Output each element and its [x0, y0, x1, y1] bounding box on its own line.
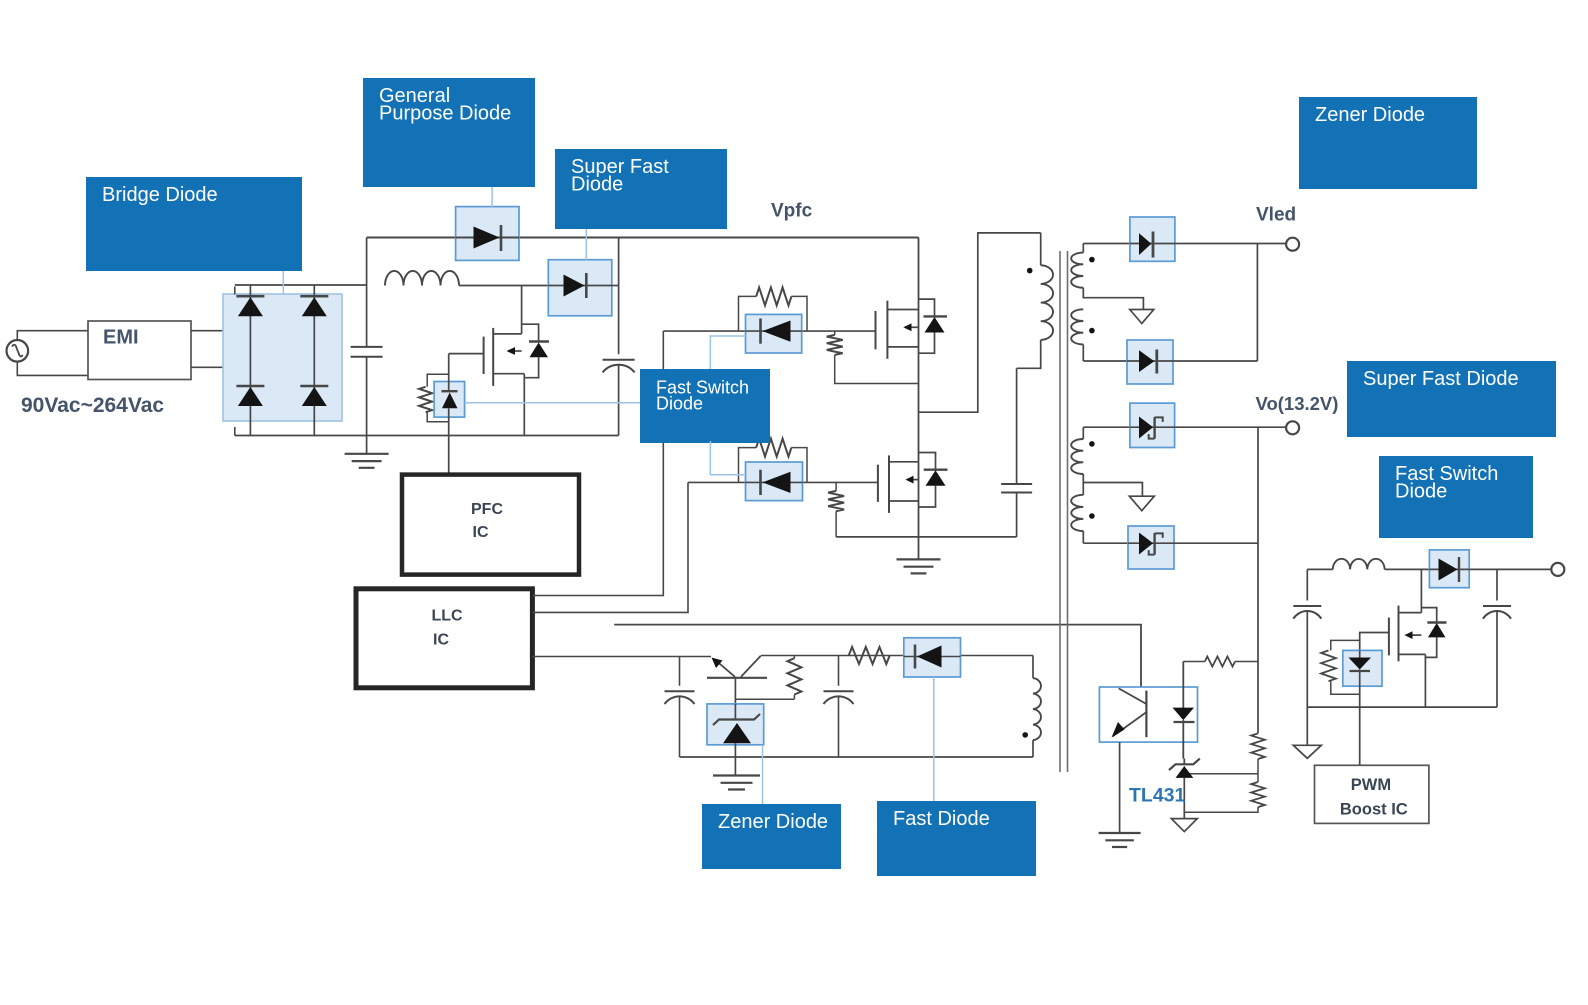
wire Q3 source to ground — [918, 462, 920, 560]
leader bridge-diode label — [282, 271, 284, 294]
Vo diode box — [1130, 403, 1175, 447]
label Zener Diode bottom — [702, 804, 841, 869]
zener diode D14 — [713, 704, 760, 776]
wire D11 out — [1173, 360, 1257, 362]
feedback winding — [1033, 656, 1041, 758]
svg-text:PFC: PFC — [471, 501, 503, 518]
lower MOSFET Q3 body diode — [919, 453, 948, 508]
PFC MOSFET Q1 — [449, 286, 525, 436]
terminal Vo — [1286, 421, 1299, 434]
center tap return arrow 1 — [1130, 310, 1154, 324]
S3-S4 center tap — [1083, 474, 1142, 496]
svg-text:Purpose Diode: Purpose Diode — [379, 103, 511, 125]
secondary winding S1 — [1071, 244, 1083, 288]
boost MOSFET Q5 — [1389, 569, 1426, 707]
boost super fast diode D17 — [1429, 557, 1469, 582]
gate zener diode D7 — [442, 354, 458, 475]
svg-text:Diode: Diode — [1395, 481, 1447, 503]
PFC IC box — [402, 475, 579, 575]
return arrow boost input — [1293, 745, 1321, 758]
S3 dot — [1089, 441, 1095, 447]
wire inductor to diode — [459, 285, 548, 287]
secondary winding S3 — [1071, 427, 1083, 474]
secondary winding S2 — [1071, 309, 1083, 361]
wire midpoint to primary — [919, 233, 1041, 412]
optocoupler LED — [1173, 662, 1195, 759]
wire Vpfc top — [367, 237, 919, 239]
Vled lower diode box — [1127, 340, 1173, 384]
svg-text:Zener Diode: Zener Diode — [1315, 104, 1425, 126]
ground bridge — [345, 436, 389, 468]
upper gate resistor R2 — [739, 287, 808, 331]
transistor Q4 base bar — [707, 677, 767, 679]
wire AC to EMI top — [17, 331, 88, 340]
lower gate resistor R4 — [739, 439, 808, 483]
bulk capacitor C1 — [351, 238, 383, 436]
leader general-purpose-diode label — [491, 187, 493, 207]
wire S2 to diode — [1083, 360, 1127, 362]
PFC MOSFET Q1 body diode — [522, 324, 549, 378]
svg-text:Bridge Diode: Bridge Diode — [102, 184, 218, 206]
leader fast-diode label — [933, 677, 935, 801]
svg-text:Diode: Diode — [656, 393, 703, 413]
svg-text:Diode: Diode — [571, 174, 623, 196]
bridge rail top — [235, 285, 367, 295]
text Vpfc — [771, 201, 813, 222]
Vled lower rectifier diode D11 — [1127, 350, 1173, 374]
terminal boost out — [1551, 563, 1564, 576]
S2 dot — [1089, 328, 1095, 334]
text TL431 — [1129, 784, 1186, 806]
fast diode D15 — [904, 645, 961, 669]
wire LLC drive to transistor — [532, 656, 711, 658]
gate pulldown resistor R1 — [419, 374, 449, 422]
wire Vled link — [1256, 244, 1258, 362]
label General Purpose Diode — [363, 78, 535, 187]
lower gate-source resistor R5 — [828, 482, 844, 537]
S1 dot — [1089, 257, 1095, 263]
PWM Boost IC box — [1315, 765, 1429, 823]
super fast diode box — [548, 260, 612, 316]
wire boost bottom rail — [1307, 706, 1497, 708]
svg-text:Zener Diode: Zener Diode — [718, 811, 828, 833]
wire EMI to bridge top — [191, 322, 236, 340]
LLC IC box — [356, 589, 532, 688]
ground opto — [1099, 833, 1141, 847]
bridge rail bottom — [235, 427, 619, 436]
text 90Vac~264Vac — [21, 394, 164, 417]
PFC output capacitor C2 — [603, 360, 635, 373]
Vled rectifier diode D10 — [1130, 232, 1175, 258]
divider resistor R9 — [1251, 733, 1265, 759]
wire collector net — [761, 655, 1033, 657]
svg-text:Fast Diode: Fast Diode — [893, 808, 990, 830]
boost MOSFET Q5 body diode — [1421, 608, 1446, 658]
upper MOSFET Q2 body diode — [919, 299, 948, 353]
wire S3 to diode — [1083, 426, 1130, 428]
divider resistor R10 — [1251, 782, 1265, 807]
bridge diode D4 — [300, 386, 328, 406]
wire source rail — [836, 536, 1017, 538]
primary dot — [1027, 268, 1033, 274]
bias resistor R8 — [1183, 657, 1258, 667]
resonant capacitor C3 — [1001, 368, 1032, 537]
wire boost out — [1469, 568, 1553, 570]
wire divider bottom — [1184, 807, 1258, 812]
lower MOSFET Q3 arrow — [905, 476, 918, 484]
mid capacitor C5 — [824, 656, 854, 758]
boost gate diode D18 — [1349, 650, 1372, 765]
svg-text:IC: IC — [433, 632, 449, 649]
collector resistor R7 — [849, 647, 890, 664]
PFC MOSFET Q1 arrow — [507, 347, 522, 355]
svg-text:Vpfc: Vpfc — [771, 201, 813, 222]
svg-text:IC: IC — [473, 524, 489, 541]
svg-text:90Vac~264Vac: 90Vac~264Vac — [21, 394, 164, 417]
ground half-bridge — [897, 559, 941, 573]
optocoupler U2 box — [1099, 687, 1197, 742]
bridge diode D1 — [236, 296, 264, 316]
Vo schottky diode D12 — [1130, 417, 1175, 439]
wire boost input — [1306, 569, 1308, 745]
wire S4 to diode — [1083, 542, 1128, 544]
boost MOSFET Q5 arrow — [1405, 631, 1422, 639]
label Fast Diode bottom — [877, 801, 1036, 876]
label Zener Diode top-right — [1299, 97, 1477, 189]
bridge column left — [249, 285, 251, 436]
secondary winding S4 — [1071, 483, 1083, 544]
leader zener-diode bottom label — [762, 745, 764, 804]
S4 dot — [1089, 513, 1095, 519]
gate diode box — [434, 382, 465, 418]
Vo lower schottky diode D13 — [1128, 533, 1174, 555]
wire LLC pin1 to upper gate — [532, 331, 663, 595]
text Vo — [1256, 393, 1339, 414]
bridge diode D2 — [300, 296, 328, 316]
upper MOSFET Q2 — [876, 238, 919, 359]
svg-text:Vled: Vled — [1256, 205, 1296, 226]
gate resistor R11 — [1321, 640, 1360, 694]
wire EMI to bridge bottom — [191, 366, 314, 368]
boost gate diode box — [1343, 650, 1382, 686]
label Fast Switch Diode middle — [640, 369, 770, 443]
ground zener — [713, 776, 760, 790]
wire Vled out — [1175, 243, 1287, 245]
svg-text:PWM: PWM — [1351, 776, 1391, 794]
wire AC to EMI bottom — [17, 362, 88, 376]
label Super Fast Diode right — [1347, 361, 1556, 437]
wire lower gate — [688, 481, 878, 483]
Vo lower diode box — [1128, 526, 1174, 569]
return arrow TL431 — [1171, 819, 1197, 832]
lower fast switch diode box — [746, 462, 803, 501]
optocoupler phototransistor — [1112, 688, 1147, 737]
wire LLC pin2 to lower gate — [532, 482, 688, 612]
boost inductor L1 — [385, 271, 459, 286]
upper MOSFET Q2 arrow — [903, 323, 918, 331]
leader fast-switch-diode to lower diode — [710, 441, 745, 475]
wire D13 out — [1174, 542, 1259, 544]
boost output capacitor C7 — [1483, 569, 1511, 707]
svg-text:LLC: LLC — [432, 608, 464, 625]
transistor Q4 collector — [741, 656, 761, 677]
general purpose diode box — [456, 207, 519, 261]
wire upper gate — [663, 330, 875, 332]
label Fast Switch Diode right — [1379, 456, 1533, 538]
wire base to zener — [734, 678, 736, 704]
leader fast-switch-diode to PFC gate diode — [465, 402, 640, 404]
boost input capacitor C6 — [1293, 606, 1321, 619]
boost inductor L2 — [1307, 559, 1429, 570]
wire half-bridge midpoint — [918, 310, 920, 462]
upper fast switch diode D8 — [746, 319, 802, 344]
wire S1 to Vled diode — [1083, 243, 1130, 245]
transistor Q4 emitter — [712, 658, 736, 677]
svg-text:Boost IC: Boost IC — [1340, 800, 1408, 818]
wire Vo link — [1257, 427, 1259, 543]
label Super Fast Diode top — [555, 149, 727, 229]
terminal Vled — [1286, 238, 1299, 251]
wire Vo out — [1175, 426, 1287, 428]
bridge column right — [313, 285, 315, 436]
feedback winding dot — [1022, 732, 1028, 738]
wire diode out — [612, 285, 619, 287]
node Vpfc vertical — [618, 238, 620, 436]
super fast diode D6 — [548, 273, 612, 298]
bridge rectifier box — [223, 294, 342, 421]
text Vled — [1256, 205, 1296, 226]
Vled diode box — [1130, 217, 1175, 261]
AC source V1 — [6, 340, 28, 362]
S1-S2 center tap — [1083, 288, 1143, 309]
svg-text:Super Fast Diode: Super Fast Diode — [1363, 368, 1519, 390]
bridge diode D3 — [236, 386, 264, 406]
transformer core — [1060, 251, 1068, 772]
leader super-fast-diode label — [585, 229, 587, 260]
lower fast switch diode D9 — [746, 470, 803, 495]
wire primary bottom — [1017, 340, 1041, 368]
base resistor R6 — [735, 656, 801, 700]
transformer primary winding — [1041, 233, 1053, 340]
center tap return arrow 2 — [1129, 496, 1154, 511]
wire opto emitter to ground — [1119, 742, 1121, 833]
wire divider mid — [1184, 759, 1258, 782]
wire feedback bottom rail — [680, 756, 1034, 758]
leader fast-switch-diode to upper diode — [710, 336, 745, 369]
zener diode box bottom — [707, 704, 764, 745]
svg-text:TL431: TL431 — [1129, 784, 1186, 806]
TL431 zener D16 — [1169, 759, 1200, 819]
fast diode box — [904, 638, 961, 677]
wire gate to clamp — [1360, 633, 1389, 651]
feedback capacitor C4 — [665, 657, 695, 758]
general purpose diode D5 — [456, 225, 519, 251]
EMI filter box — [88, 321, 191, 380]
label Bridge Diode — [86, 177, 302, 271]
wire Vo to divider — [1257, 543, 1259, 733]
upper fast switch diode box — [746, 314, 802, 353]
wire LLC feedback to opto — [614, 625, 1141, 687]
lower MOSFET Q3 — [878, 455, 919, 513]
upper gate-source resistor R3 — [827, 331, 919, 383]
boost diode box — [1429, 550, 1469, 588]
svg-text:Vo(13.2V): Vo(13.2V) — [1256, 393, 1339, 414]
svg-text:EMI: EMI — [103, 327, 139, 349]
